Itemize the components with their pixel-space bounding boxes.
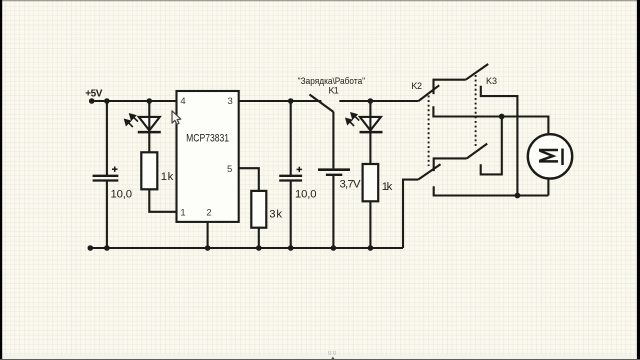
junction dot R2 ground bbox=[256, 245, 262, 251]
resistor R3 1k bbox=[363, 164, 379, 201]
wire LED D1 anode lead bbox=[148, 101, 150, 117]
LED D2 emission arrows bbox=[346, 113, 359, 126]
svg-text:K3: K3 bbox=[486, 76, 497, 86]
capacitor C2 polarity plus bbox=[297, 167, 302, 172]
switch K2 lower pole blade bbox=[418, 164, 440, 179]
capacitor C2 plates bbox=[279, 176, 302, 181]
node ground rail left end dot bbox=[88, 245, 94, 251]
wire C1 top lead bbox=[106, 101, 108, 175]
wire C2 bottom lead bbox=[290, 181, 292, 248]
relay K3 actuation dotted link bbox=[475, 75, 477, 148]
switch K2 lower pole throw A contact bbox=[434, 158, 467, 171]
svg-text:1k: 1k bbox=[382, 181, 393, 193]
capacitor C1 polarity plus bbox=[112, 167, 118, 172]
wire R3 to ground rail bbox=[369, 201, 371, 248]
junction dot C2 ground bbox=[288, 245, 294, 251]
switch K3 upper pole blade bbox=[466, 64, 489, 80]
junction dot C1 top bbox=[104, 98, 110, 104]
wire battery minus to ground rail bbox=[332, 176, 334, 248]
video timeline strip bbox=[3, 355, 637, 359]
mouse cursor bbox=[172, 111, 181, 125]
motor M1 rotated M glyph bbox=[539, 149, 563, 166]
junction dot C1 ground bbox=[104, 245, 110, 251]
wire C2 top lead bbox=[290, 101, 292, 175]
switch K2 upper pole blade bbox=[419, 85, 440, 101]
junction dot battery ground bbox=[331, 245, 337, 251]
node +5V dot bbox=[89, 98, 95, 104]
svg-text:3: 3 bbox=[228, 96, 233, 107]
relay K2 actuation dotted link bbox=[428, 96, 430, 167]
svg-text:5: 5 bbox=[227, 164, 232, 175]
svg-text:MCP73831: MCP73831 bbox=[186, 133, 229, 145]
motor M1 body bbox=[528, 134, 572, 178]
video playhead triangle bbox=[331, 357, 336, 360]
wire K1 right to K2 bbox=[339, 100, 418, 102]
wire K1 common to battery bbox=[332, 112, 334, 169]
wire pin 3 output bbox=[239, 100, 322, 102]
LED D2 body bbox=[360, 117, 383, 132]
svg-text:3,7V: 3,7V bbox=[340, 179, 361, 191]
wire pin 5 to R2 bbox=[239, 168, 259, 191]
wire pin 2 to ground rail bbox=[207, 222, 209, 248]
junction dot pin2 ground bbox=[205, 245, 211, 251]
junction dot C2 top bbox=[288, 98, 294, 104]
wire ground rail riser to K2 lower pole bbox=[403, 180, 418, 248]
IC U1 MCP73831 body bbox=[177, 91, 239, 222]
wire ground rail bbox=[90, 247, 403, 249]
LED D1 body bbox=[138, 117, 161, 132]
junction dot LED D1 anode bbox=[147, 98, 153, 104]
switch K2 lower pole throw B contact bbox=[434, 186, 549, 195]
capacitor C1 plates bbox=[93, 176, 119, 181]
svg-text:1: 1 bbox=[180, 208, 185, 219]
junction dot LED D2 anode bbox=[368, 98, 374, 104]
switch K3 lower pole blade bbox=[467, 144, 487, 159]
svg-text:10,0: 10,0 bbox=[111, 188, 133, 200]
svg-text:4: 4 bbox=[180, 96, 185, 107]
svg-text:3k: 3k bbox=[269, 209, 282, 221]
wire C1 bottom lead bbox=[106, 181, 108, 248]
junction dot R3 ground bbox=[368, 245, 374, 251]
motor M1 bottom lead bbox=[547, 179, 549, 196]
switch K3 upper pole throw contact bbox=[481, 86, 518, 196]
svg-text:10,0: 10,0 bbox=[295, 188, 317, 200]
LED D1 emission arrows bbox=[125, 114, 138, 127]
wire LED D2 cathode to R3 bbox=[369, 132, 371, 164]
switch K1 blade bbox=[310, 95, 334, 112]
frame bars bbox=[0, 0, 640, 1]
switch K2 upper pole throw B contact bbox=[433, 106, 501, 116]
svg-text:K1: K1 bbox=[328, 86, 338, 96]
svg-text:K2: K2 bbox=[411, 81, 422, 91]
wire R2 to ground rail bbox=[258, 228, 260, 248]
svg-text:2: 2 bbox=[206, 208, 211, 219]
switch K2 upper pole throw A contact bbox=[434, 80, 466, 94]
wire R1 to pin 1 bbox=[149, 189, 176, 212]
switch K3 lower pole throw contact bbox=[481, 117, 502, 175]
battery B1 plates bbox=[318, 170, 350, 175]
svg-text:1k: 1k bbox=[161, 171, 174, 183]
junction dot motor top node bbox=[499, 114, 505, 120]
svg-text:0:0: 0:0 bbox=[328, 351, 337, 357]
wire LED D1 cathode to R1 bbox=[148, 132, 150, 152]
junction dot motor bottom node bbox=[515, 193, 521, 199]
wire motor top feed bbox=[502, 117, 549, 135]
resistor R2 3k bbox=[251, 191, 266, 228]
wire LED D2 anode lead bbox=[369, 101, 371, 117]
resistor R1 1k bbox=[141, 152, 157, 189]
svg-text:+5V: +5V bbox=[85, 88, 103, 99]
wire +5V rail bbox=[92, 100, 177, 102]
